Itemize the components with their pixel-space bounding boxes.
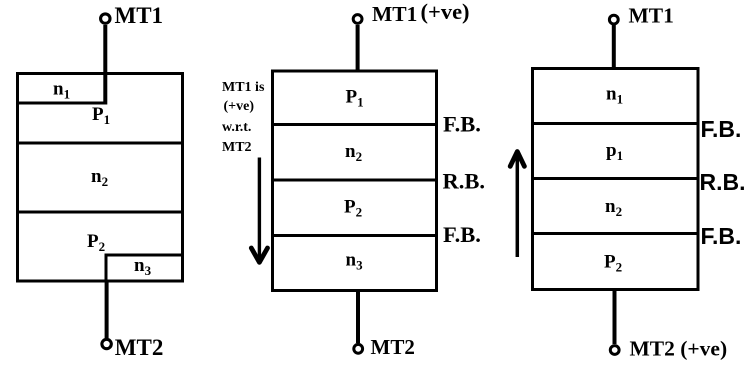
svg-text:w.r.t.: w.r.t. (222, 120, 251, 135)
triac body outline (middle) (273, 71, 437, 291)
junction line n2/P2 (middle) (272, 179, 437, 182)
junction line n3 top (left) (106, 254, 184, 257)
junction line n1/p1 (right) (532, 122, 697, 125)
svg-text:MT1: MT1 (629, 3, 674, 27)
svg-text:F.B.: F.B. (443, 222, 481, 247)
wire MT2 lead (right) (613, 290, 617, 345)
svg-text:P2: P2 (87, 231, 105, 254)
terminal MT1 (left) circle (101, 14, 110, 23)
wire MT1 lead (middle) (356, 25, 360, 72)
svg-text:p1: p1 (606, 140, 623, 163)
wire MT2 lead (left) (105, 281, 109, 338)
junction line n3 left edge (left) (105, 254, 108, 282)
svg-text:MT2: MT2 (222, 140, 252, 155)
svg-text:F.B.: F.B. (701, 116, 742, 142)
svg-text:n2: n2 (91, 166, 108, 189)
terminal MT1 (middle) circle (353, 15, 362, 24)
svg-text:P1: P1 (92, 104, 110, 127)
current direction arrow (right, upward) (516, 154, 520, 258)
svg-text:R.B.: R.B. (700, 169, 746, 195)
svg-text:n2: n2 (605, 196, 622, 219)
svg-text:MT1: MT1 (115, 3, 164, 28)
junction line n2/P2 (left) (16, 211, 184, 214)
current direction arrow (middle, downward) (258, 158, 261, 261)
junction line n2/P2 (right) (532, 232, 697, 235)
wire MT1 lead (right) (612, 25, 616, 70)
svg-text:n1: n1 (53, 79, 70, 102)
triac body outline (left) (18, 74, 183, 282)
junction line n1 bottom (left) (16, 102, 107, 105)
terminal MT2 (right) circle (610, 346, 619, 355)
svg-text:P1: P1 (346, 87, 364, 110)
svg-text:n3: n3 (346, 250, 364, 273)
svg-text:MT2: MT2 (371, 335, 415, 359)
triac body outline (right) (533, 69, 699, 290)
terminal MT1 (right) circle (609, 15, 618, 24)
svg-text:(+ve): (+ve) (224, 99, 255, 114)
terminal MT2 (left) circle (102, 339, 111, 348)
svg-text:F.B.: F.B. (701, 223, 742, 249)
svg-text:MT2: MT2 (115, 335, 164, 360)
svg-text:n3: n3 (134, 255, 152, 278)
wire MT1 lead (left) (103, 25, 107, 105)
junction line p1/n2 (right) (532, 177, 697, 180)
junction line P1/n2 (left) (16, 142, 184, 145)
svg-text:MT1: MT1 (372, 2, 417, 26)
svg-text:MT1 is: MT1 is (222, 80, 265, 95)
svg-text:R.B.: R.B. (443, 169, 486, 194)
svg-text:n1: n1 (606, 84, 623, 107)
svg-text:P2: P2 (344, 197, 362, 220)
svg-text:F.B.: F.B. (443, 112, 481, 137)
svg-text:MT2 (+ve): MT2 (+ve) (630, 337, 728, 361)
junction line P2/n3 (middle) (272, 234, 437, 237)
junction line P1/n2 (middle) (272, 123, 437, 126)
svg-text:(+ve): (+ve) (421, 0, 470, 24)
wire MT2 lead (middle) (356, 290, 360, 343)
svg-text:n2: n2 (345, 141, 362, 164)
terminal MT2 (middle) circle (354, 344, 363, 353)
svg-text:P2: P2 (604, 252, 622, 275)
